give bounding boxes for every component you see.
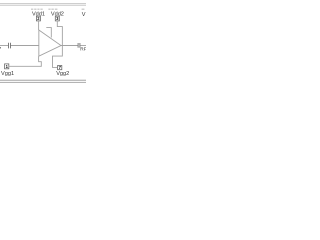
svg-text:Vgg1: Vgg1 [1,71,14,77]
svg-text:Vgg2: Vgg2 [56,71,69,77]
svg-text:V: V [82,12,86,18]
svg-text:RFout: RFout [80,47,86,52]
